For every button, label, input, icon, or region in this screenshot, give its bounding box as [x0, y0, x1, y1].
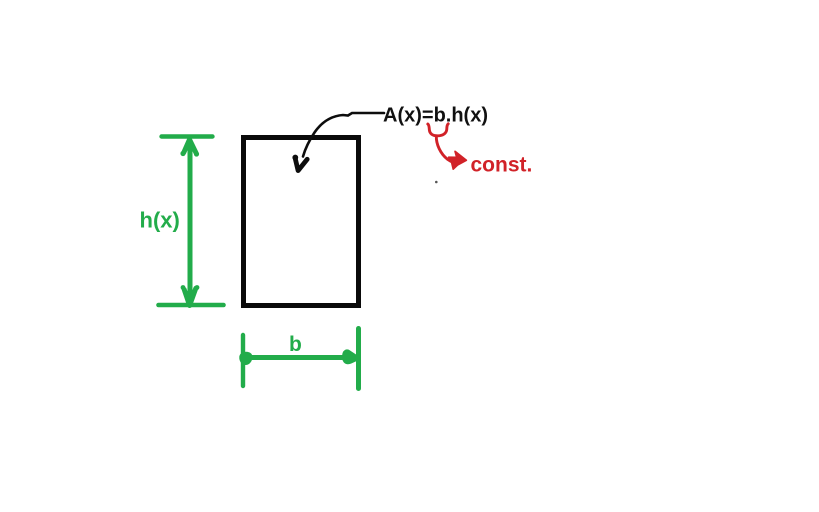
dimension h(x): top arrowhead: [184, 140, 196, 153]
leader arrow (black, curved from label into rectangle): [303, 113, 384, 157]
red arrowhead: [449, 151, 467, 169]
dimension b: shaft: [245, 355, 356, 360]
svg-text:b: b: [289, 333, 302, 356]
dimension b: left arrowhead: [240, 352, 252, 364]
red brace under b.h: [428, 124, 448, 136]
svg-text:h(x): h(x): [140, 208, 180, 233]
dimension b: left tick: [241, 335, 245, 386]
svg-text:A(x)=b.h(x): A(x)=b.h(x): [383, 105, 488, 127]
leader arrowhead: [295, 158, 307, 171]
svg-text:const.: const.: [471, 154, 533, 177]
dimension h(x): bottom arrowhead: [184, 288, 196, 305]
red curved arrow to const.: [436, 136, 453, 162]
stray dot artifact: [435, 181, 438, 184]
dimension h(x): shaft: [188, 146, 193, 296]
dimension h(x): top tick: [162, 134, 213, 138]
dimension b: right arrowhead: [343, 350, 358, 363]
rectangle cross-section: [244, 138, 359, 306]
dimension b: right tick: [356, 329, 361, 389]
dimension h(x): bottom tick: [159, 303, 224, 308]
